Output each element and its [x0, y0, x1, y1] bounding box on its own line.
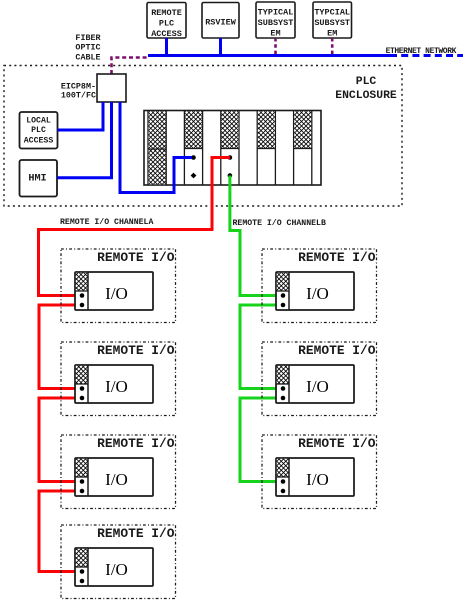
I/O scanner module B (red/green channels)	[221, 111, 239, 178]
svg-text:REMOTE I/O: REMOTE I/O	[97, 250, 175, 265]
remote I/O rack 5	[276, 272, 354, 310]
wire switch to LOCAL PLC ACCESS	[58, 102, 104, 130]
PLC rack chassis	[144, 111, 321, 186]
svg-text:FIBER: FIBER	[75, 33, 101, 43]
PLC module D (hatched)	[294, 111, 312, 148]
wire drop RSVIEW to ethernet	[219, 38, 222, 56]
remote I/O drop 5 (dash-dot border)	[262, 249, 377, 323]
wire fiber optic cable (dashed purple)	[112, 58, 149, 75]
box TYPICAL SUBSYSTEM 1	[256, 2, 295, 39]
PLC enclosure (dotted border)	[4, 66, 402, 207]
rack slot dividers	[148, 111, 312, 186]
svg-text:I/O: I/O	[105, 560, 128, 579]
svg-text:RSVIEW: RSVIEW	[205, 18, 237, 28]
box fiber switch EICP8M-100T/FC	[97, 74, 126, 102]
remote I/O drop 1 (dash-dot border)	[61, 249, 176, 323]
svg-text:CABLE: CABLE	[75, 53, 100, 63]
svg-text:REMOTE I/O: REMOTE I/O	[298, 250, 376, 265]
remote I/O drop 3 (dash-dot border)	[61, 435, 176, 509]
wire drop REMOTE PLC ACCESS to ethernet	[165, 38, 168, 56]
svg-text:I/O: I/O	[306, 284, 329, 303]
wire ethernet solid segment	[148, 54, 390, 57]
box REMOTE PLC ACCESS	[147, 3, 186, 40]
box HMI	[20, 160, 58, 197]
wire channel B: remote I/O 5 to 6	[240, 305, 281, 389]
remote I/O rack 7	[276, 458, 354, 496]
wire drop TYPCIAL SUBSYSTEM 2 (dashed)	[331, 38, 334, 57]
svg-text:PLC: PLC	[356, 76, 377, 88]
svg-text:100T/FC: 100T/FC	[61, 91, 96, 101]
svg-text:SUBSYST: SUBSYST	[314, 18, 350, 28]
box LOCAL PLC ACCESS	[20, 112, 58, 149]
wire ethernet dashed segment	[390, 54, 463, 57]
I/O scanner module A (blue connected)	[184, 111, 202, 178]
svg-text:I/O: I/O	[105, 470, 128, 489]
wire switch to PLC comms module	[120, 102, 192, 193]
svg-text:LOCAL: LOCAL	[26, 117, 51, 126]
wire channel A: remote I/O 1 to 2	[39, 305, 80, 389]
svg-text:I/O: I/O	[306, 470, 329, 489]
remote I/O drop 2 (dash-dot border)	[61, 342, 176, 416]
wire channel A: module B to remote I/O 1	[39, 158, 230, 296]
svg-text:TYPCIAL: TYPCIAL	[314, 8, 350, 18]
svg-text:ACCESS: ACCESS	[151, 29, 182, 39]
svg-text:ACCESS: ACCESS	[24, 137, 54, 146]
remote I/O drop 4 (dash-dot border)	[61, 525, 176, 599]
wire drop TYPICAL SUBSYSTEM 1 (dashed)	[274, 38, 277, 57]
svg-text:TYPICAL: TYPICAL	[258, 8, 294, 18]
svg-text:REMOTE I/O: REMOTE I/O	[298, 436, 376, 451]
svg-text:REMOTE I/O CHANNELB: REMOTE I/O CHANNELB	[233, 218, 326, 228]
svg-text:I/O: I/O	[306, 377, 329, 396]
label EICP8M-100T/FC	[61, 82, 96, 101]
label FIBER OPTIC CABLE	[75, 33, 101, 63]
svg-text:ENCLOSURE: ENCLOSURE	[335, 90, 397, 102]
wire switch to HMI	[57, 102, 112, 178]
remote I/O rack 1	[75, 272, 153, 310]
svg-text:EM: EM	[270, 29, 280, 39]
remote I/O rack 4	[75, 548, 153, 586]
svg-text:OPTIC: OPTIC	[75, 43, 100, 53]
remote I/O drop 6 (dash-dot border)	[262, 342, 377, 416]
svg-text:PLC: PLC	[31, 126, 46, 135]
remote I/O rack 2	[75, 365, 153, 403]
wire channel B: remote I/O 6 to 7	[240, 398, 281, 482]
remote I/O rack 6	[276, 365, 354, 403]
wire channel A: remote I/O 2 to 3	[39, 398, 80, 482]
svg-text:I/O: I/O	[105, 284, 128, 303]
svg-text:REMOTE I/O CHANNELA: REMOTE I/O CHANNELA	[60, 217, 153, 227]
wire channel A: remote I/O 3 to 4	[39, 491, 80, 572]
svg-text:REMOTE I/O: REMOTE I/O	[97, 436, 175, 451]
power supply module (hatched, full height)	[148, 111, 166, 184]
svg-text:HMI: HMI	[28, 174, 46, 185]
svg-text:REMOTE I/O: REMOTE I/O	[298, 343, 376, 358]
wire channel B: module B to remote I/O 5	[230, 176, 281, 296]
svg-text:I/O: I/O	[105, 377, 128, 396]
svg-text:REMOTE I/O: REMOTE I/O	[97, 526, 175, 541]
svg-text:PLC: PLC	[159, 19, 174, 29]
svg-text:SUBSYST: SUBSYST	[258, 18, 294, 28]
remote I/O rack 3	[75, 458, 153, 496]
label PLC ENCLOSURE	[335, 76, 397, 102]
svg-text:REMOTE: REMOTE	[151, 8, 182, 18]
svg-text:REMOTE I/O: REMOTE I/O	[97, 343, 175, 358]
svg-text:EM: EM	[327, 29, 337, 39]
box RSVIEW	[202, 3, 239, 39]
remote I/O drop 7 (dash-dot border)	[262, 435, 377, 509]
PLC module C (hatched)	[257, 111, 275, 148]
box TYPCIAL SUBSYSTEM 2	[313, 2, 352, 39]
